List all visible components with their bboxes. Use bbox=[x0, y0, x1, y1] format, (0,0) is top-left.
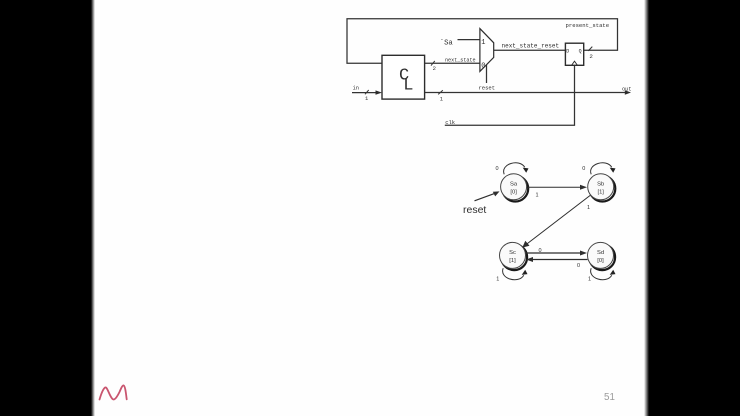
white slide area bbox=[94, 0, 645, 416]
label next_state bbox=[445, 58, 476, 64]
reset entry arrow into Sa bbox=[463, 191, 500, 216]
label `Sa reset-state constant bbox=[440, 39, 454, 47]
transition Sb to Sc, input 1 bbox=[522, 195, 590, 247]
label clk bbox=[445, 119, 456, 126]
wire present_state feedback loop (top line, right and left verticals) bbox=[347, 19, 618, 63]
combinational logic block CL bbox=[382, 55, 425, 99]
state Sa bbox=[501, 174, 529, 202]
state Sd bbox=[588, 242, 616, 270]
svg-text:2: 2 bbox=[589, 53, 593, 60]
bus slash 2 on Q output wire bbox=[588, 47, 593, 60]
svg-text:present_state: present_state bbox=[566, 22, 610, 29]
wire `Sa to mux input 1 bbox=[458, 39, 480, 41]
self-loop on Sa bbox=[496, 163, 529, 175]
transition Sa to Sb, input 1 bbox=[528, 185, 588, 199]
svg-text:0: 0 bbox=[539, 248, 542, 254]
wire reset select into mux bbox=[486, 65, 488, 83]
svg-text:`Sa: `Sa bbox=[440, 39, 454, 47]
svg-text:in: in bbox=[353, 85, 359, 91]
svg-text:0: 0 bbox=[582, 166, 585, 172]
node present_state label bbox=[566, 22, 610, 29]
self-loop on Sb bbox=[582, 163, 615, 175]
svg-text:[0]: [0] bbox=[510, 190, 517, 196]
svg-text:0: 0 bbox=[496, 166, 499, 172]
svg-text:1: 1 bbox=[496, 276, 499, 282]
label in bbox=[353, 85, 359, 91]
label out bbox=[622, 87, 632, 93]
svg-text:reset: reset bbox=[479, 85, 496, 92]
svg-text:clk: clk bbox=[445, 119, 456, 126]
svg-text:next_state: next_state bbox=[445, 58, 476, 64]
label next_state_reset bbox=[502, 42, 560, 49]
mux (2-to-1 multiplexer) bbox=[480, 29, 494, 72]
svg-text:1: 1 bbox=[588, 276, 591, 282]
svg-text:Q: Q bbox=[579, 48, 582, 54]
svg-text:2: 2 bbox=[433, 65, 436, 72]
logo red wave bbox=[100, 385, 127, 399]
svg-text:next_state_reset: next_state_reset bbox=[502, 42, 560, 49]
bus slash 1 on in wire bbox=[365, 90, 369, 102]
svg-text:D: D bbox=[566, 48, 569, 54]
svg-text:0: 0 bbox=[481, 63, 485, 71]
wire clk to flip-flop clock pin bbox=[445, 65, 575, 125]
label reset bbox=[479, 85, 496, 92]
svg-text:[0]: [0] bbox=[597, 258, 604, 264]
wire next_state from CL to mux input 0 bbox=[425, 62, 480, 64]
page number 51 bbox=[604, 392, 615, 403]
svg-text:[1]: [1] bbox=[597, 190, 604, 196]
svg-text:Sb: Sb bbox=[597, 181, 604, 187]
svg-text:1: 1 bbox=[481, 39, 485, 47]
svg-text:1: 1 bbox=[536, 193, 539, 199]
state Sc bbox=[500, 242, 528, 270]
transition Sd to Sc, input 0 bbox=[526, 257, 588, 269]
svg-text:[1]: [1] bbox=[509, 258, 516, 264]
svg-text:Sa: Sa bbox=[510, 181, 518, 187]
self-loop on Sc bbox=[496, 268, 527, 282]
flip-flop U1 (D register) bbox=[565, 43, 583, 65]
self-loop on Sd bbox=[588, 268, 616, 282]
transition Sc to Sd, input 0 bbox=[526, 248, 588, 256]
bus slash 1 on out wire bbox=[438, 90, 444, 102]
svg-text:L: L bbox=[403, 77, 413, 96]
svg-text:1: 1 bbox=[587, 205, 590, 211]
svg-text:51: 51 bbox=[604, 392, 615, 403]
svg-text:Sd: Sd bbox=[597, 250, 604, 256]
svg-text:Sc: Sc bbox=[509, 250, 516, 256]
wire next_state_reset from mux to flip-flop D bbox=[494, 49, 566, 51]
bus slash 2 on next_state wire bbox=[431, 61, 436, 72]
state Sb bbox=[588, 174, 616, 202]
wire out bbox=[425, 92, 627, 94]
svg-text:0: 0 bbox=[577, 263, 580, 269]
svg-text:out: out bbox=[622, 87, 632, 93]
svg-text:reset: reset bbox=[463, 204, 486, 216]
wire in (input with arrowhead into CL) bbox=[352, 92, 378, 94]
